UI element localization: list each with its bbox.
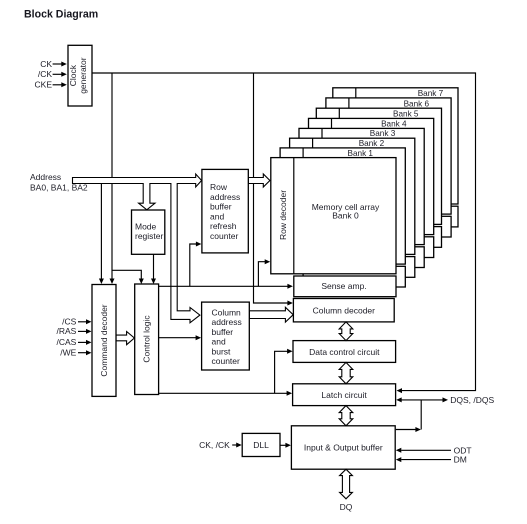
svg-text:Latch circuit: Latch circuit — [321, 390, 367, 400]
svg-text:Row: Row — [210, 182, 228, 192]
wire clock branch down to column decoder — [254, 73, 288, 303]
svg-text:Bank 0: Bank 0 — [332, 210, 359, 220]
svg-text:DLL: DLL — [253, 440, 269, 450]
wire /RAS input — [78, 330, 87, 332]
bus Row address buffer to Row decoder — [248, 174, 270, 187]
bus DQ bidirectional — [340, 469, 353, 499]
svg-text:buffer: buffer — [212, 327, 234, 337]
svg-text:and: and — [210, 211, 224, 221]
wire branch up to row decoder — [258, 262, 265, 287]
wire branch up to data control circuit — [275, 351, 289, 393]
control logic — [135, 284, 159, 395]
bus Address to Row address buffer with branches to Mode register and Column address buffer — [73, 174, 202, 323]
svg-text:/CAS: /CAS — [56, 337, 76, 347]
svg-text:CKE: CKE — [35, 80, 53, 90]
svg-text:/CS: /CS — [62, 317, 77, 327]
wire clock elbow to control logic top — [112, 270, 141, 279]
svg-text:Input & Output buffer: Input & Output buffer — [304, 443, 383, 453]
memory bank 7 array box — [333, 88, 458, 227]
svg-text:BA0, BA1, BA2: BA0, BA1, BA2 — [30, 183, 88, 193]
bus latch circuit to input output buffer bidirectional — [339, 406, 353, 426]
svg-text:Column decoder: Column decoder — [313, 306, 376, 316]
wire /WE input — [78, 352, 87, 354]
row address buffer and refresh counter — [202, 169, 248, 253]
svg-text:DM: DM — [454, 455, 467, 465]
wire control logic to sense amp — [159, 285, 289, 287]
memory bank 4 array box — [309, 118, 434, 257]
wire CK /CK to DLL — [232, 444, 237, 446]
bus Command decoder to Control logic — [116, 332, 134, 345]
svg-text:generator: generator — [78, 57, 88, 94]
wire DQS branch to input output buffer — [396, 429, 416, 431]
wire control logic to column address buffer — [159, 337, 197, 339]
svg-text:Bank 2: Bank 2 — [359, 139, 385, 148]
svg-text:DQS, /DQS: DQS, /DQS — [450, 395, 494, 405]
memory bank 6 array box — [326, 98, 451, 237]
svg-text:address: address — [210, 192, 240, 202]
bus column decoder to data control circuit bidirectional — [339, 322, 353, 341]
svg-text:/RAS: /RAS — [56, 326, 76, 336]
svg-text:Block Diagram: Block Diagram — [24, 8, 98, 20]
bus data control circuit to latch circuit bidirectional — [339, 362, 353, 383]
svg-text:Sense amp.: Sense amp. — [321, 281, 366, 291]
svg-text:/CK: /CK — [38, 69, 53, 79]
svg-text:Bank 6: Bank 6 — [404, 99, 430, 108]
svg-text:burst: burst — [212, 346, 232, 356]
wire /CS input — [78, 321, 87, 323]
wire CKE input — [53, 84, 63, 86]
DLL — [242, 433, 280, 456]
svg-text:register: register — [135, 231, 164, 241]
latch circuit — [293, 384, 396, 406]
svg-text:CK: CK — [40, 59, 52, 69]
svg-text:Bank 5: Bank 5 — [393, 110, 419, 119]
svg-text:Address: Address — [30, 172, 61, 182]
wire /CK input — [53, 73, 63, 75]
column decoder — [293, 299, 394, 322]
wire ODT input — [401, 449, 451, 451]
svg-text:Data control circuit: Data control circuit — [309, 347, 380, 357]
wire mode register output to control logic — [153, 254, 155, 279]
svg-text:Clock: Clock — [68, 64, 78, 86]
memory bank 3 array box — [299, 128, 424, 267]
svg-text:Command decoder: Command decoder — [99, 304, 109, 376]
svg-text:counter: counter — [210, 231, 239, 241]
svg-text:Bank 1: Bank 1 — [348, 149, 374, 158]
svg-text:Bank 7: Bank 7 — [418, 89, 444, 98]
wire DQS bidirectional — [401, 399, 443, 401]
svg-text:Mode: Mode — [135, 222, 157, 232]
svg-text:Column: Column — [212, 308, 242, 318]
svg-text:counter: counter — [212, 356, 241, 366]
svg-text:CK, /CK: CK, /CK — [199, 440, 230, 450]
wire /CAS input — [78, 341, 87, 343]
clock generator U1 — [68, 45, 92, 106]
svg-text:refresh: refresh — [210, 221, 237, 231]
svg-text:Row decoder: Row decoder — [278, 190, 288, 240]
wire CK input — [53, 63, 63, 65]
memory bank 1 array box — [280, 148, 405, 287]
svg-text:address: address — [212, 317, 242, 327]
svg-text:and: and — [212, 337, 226, 347]
wire clock branch down to command decoder — [111, 73, 113, 279]
svg-text:Control logic: Control logic — [142, 315, 152, 363]
wire DM input — [401, 459, 451, 461]
wire branch up to row address buffer — [190, 244, 197, 286]
memory bank 0 array box — [271, 158, 396, 297]
svg-text:buffer: buffer — [210, 202, 232, 212]
svg-text:Bank 3: Bank 3 — [370, 129, 396, 138]
memory bank 5 array box — [316, 108, 441, 247]
wire DLL to input output buffer — [281, 444, 287, 446]
wire address branch down to command decoder — [100, 184, 102, 280]
wire control logic to latch circuit — [159, 392, 288, 394]
bus Column address buffer to Column decoder — [249, 307, 293, 322]
svg-text:Bank 4: Bank 4 — [381, 119, 407, 128]
command decoder — [92, 285, 116, 397]
svg-text:/WE: /WE — [60, 348, 76, 358]
svg-text:DQ: DQ — [340, 502, 353, 512]
input and output buffer — [291, 426, 395, 469]
memory bank 2 array box — [290, 138, 415, 277]
column address buffer and burst counter — [202, 302, 250, 370]
wire clock generator output to outer right rail — [92, 73, 476, 391]
data control circuit — [293, 341, 396, 363]
mode register — [132, 210, 165, 254]
